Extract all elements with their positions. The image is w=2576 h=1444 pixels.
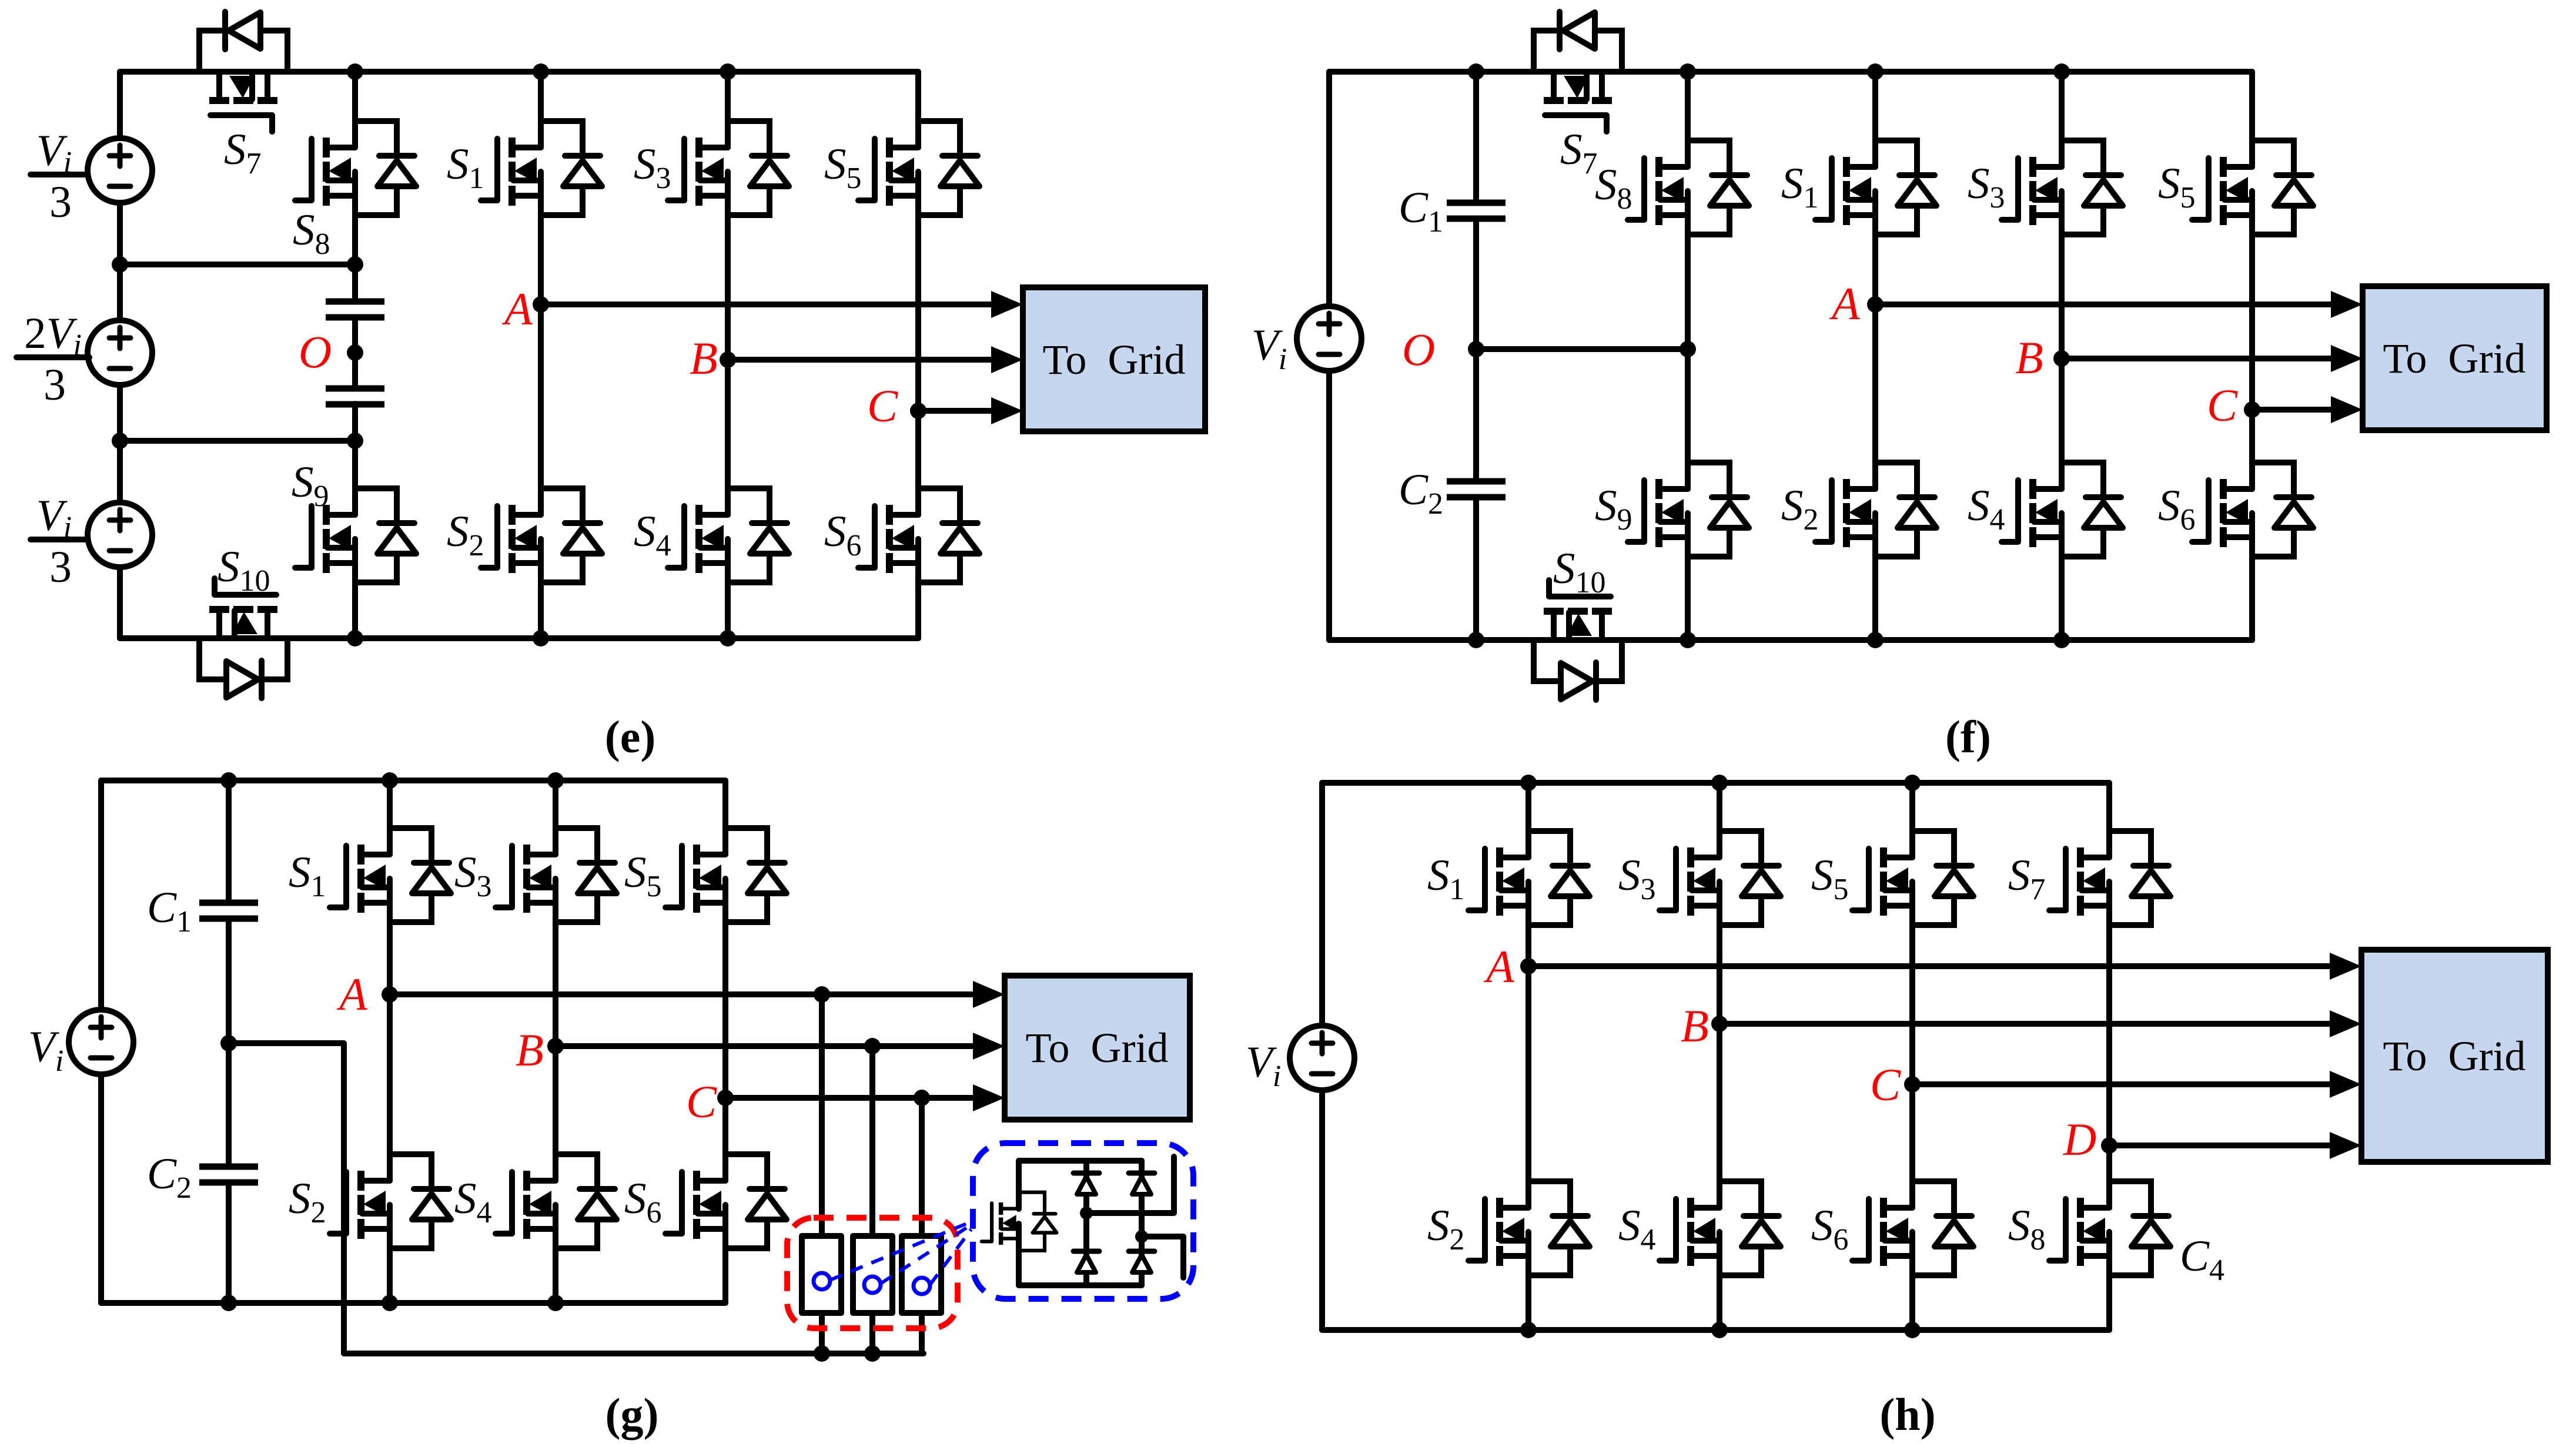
wire: (f) clamp leg [1685,72,1691,640]
svg-text:S5: S5 [2158,159,2196,215]
terminal circle A [814,1273,830,1289]
wire: (g) neutral return to switch bank [229,1043,924,1353]
junction: (g) leg A / bottom rail [382,1295,398,1311]
wire: (e) phase leg B [725,72,731,638]
svg-text:S8: S8 [2008,1201,2046,1257]
svg-text:To Grid: To Grid [2383,335,2526,382]
arrowhead: (f) phase C to grid [2331,396,2363,423]
wire: (g) top DC rail [101,778,725,783]
terminal circle B [864,1277,881,1293]
junction: (h) leg C / bottom rail [1904,1322,1921,1338]
transistor S5 of (g) (N-MOSFET with body diode) [665,828,787,922]
wire: (g) bottom DC rail [101,1300,725,1306]
switch module box A [802,1236,841,1313]
node C of (g) [717,1090,734,1106]
node B of (h) [1711,1016,1728,1032]
diode: bridge bottom-left [1073,1251,1099,1272]
wire: (f) phase A output [1875,301,2331,307]
wire: (g) phase A output [390,991,974,997]
source Vi/3 (bottom) [88,502,152,567]
svg-text:(e): (e) [605,711,656,762]
transistor S10 of (f) [1544,580,1612,640]
junction: (h) leg A / bottom rail [1520,1322,1537,1338]
blue dashed leader lines [830,1222,971,1285]
svg-text:A: A [501,283,533,334]
transistor S2 of (f) (N-MOSFET with body diode) [1815,463,1936,557]
svg-text:3: 3 [49,542,72,592]
transistor S2 of (h) (N-MOSFET with body diode) [1468,1181,1590,1275]
svg-text:S10: S10 [218,542,270,598]
wire: (h) phase D output [2109,1143,2330,1148]
junction: (e) leg B / top rail [720,63,736,80]
transistor S1 (N-MOSFET with body diode) [481,121,602,215]
svg-text:S2: S2 [289,1174,326,1229]
wire: (e) lower source tap [120,438,355,444]
source Vi of (g) [69,1010,133,1074]
node A of (f) [1867,296,1884,313]
junction: (h) leg C / top rail [1904,775,1921,791]
wire: (e) phase leg A [538,72,544,638]
wire: (h) top DC rail [1322,780,2109,786]
wire: (h) bottom DC rail [1322,1327,2109,1333]
junction: (g) switch tap C [914,1090,930,1106]
svg-text:3: 3 [44,360,66,410]
svg-text:Vi: Vi [1252,321,1287,376]
svg-text:S3: S3 [454,848,492,903]
transistor S10 (horizontal MOSFET on bottom rail) [209,578,277,638]
junction: (g) leg B / top rail [547,772,564,789]
svg-text:S7: S7 [2008,851,2046,906]
svg-text:S7: S7 [1560,125,1598,180]
junction: (e) leg A / top rail [533,63,549,80]
transistor S3 of (h) (N-MOSFET with body diode) [1660,831,1781,925]
svg-text:O: O [1402,324,1435,375]
junction: (e) clamp leg / top rail [347,63,363,80]
arrowhead: (h) phase C to grid [2330,1071,2361,1098]
wire: (h) phase A output [1528,963,2330,969]
node A [533,296,549,313]
wire: (g) capacitor leg [226,780,232,1303]
junction: (g) switch tap A [814,986,830,1003]
transistor S7 (horizontal MOSFET on top rail) [209,72,277,132]
wire: (g) phase leg B [553,780,558,1303]
svg-text:S5: S5 [624,848,662,903]
transistor S2 of (g) (N-MOSFET with body diode) [330,1154,451,1248]
svg-text:S6: S6 [2158,481,2196,537]
svg-text:S2: S2 [1427,1201,1465,1257]
wire: detail AC terminal 2 [1142,1237,1183,1278]
svg-text:S3: S3 [1618,851,1656,906]
node D of (h) [2101,1137,2117,1154]
wire: (e) phase leg C [915,72,921,638]
diode: bridge bottom-right [1129,1251,1155,1272]
diode: (f) S10 bypass diode loop [1534,643,1622,700]
wire: (g) left source rail [98,780,104,1303]
wire: (g) phase leg C [722,780,728,1303]
wire: (h) phase leg A [1525,783,1531,1330]
node B of (g) [547,1038,564,1054]
wire: (g) switch leg B [869,1046,875,1353]
transistor S3 of (f) (N-MOSFET with body diode) [2002,140,2123,234]
wire: (e) clamp leg [352,72,358,638]
svg-text:A: A [1829,278,1860,329]
svg-text:S2: S2 [1781,481,1819,537]
junction: (f) leg B / top rail [2053,63,2070,80]
svg-text:To Grid: To Grid [1026,1024,1169,1071]
svg-text:S6: S6 [624,1174,662,1229]
junction: (g) switch tap B [864,1038,881,1054]
node C of (h) [1904,1076,1921,1093]
svg-text:S1: S1 [1427,851,1465,906]
svg-text:To Grid: To Grid [1043,336,1186,383]
svg-text:S2: S2 [447,507,484,562]
wire: (f) phase B output [2062,356,2331,361]
diode: bridge top-left [1073,1173,1099,1194]
svg-text:S4: S4 [1618,1201,1656,1257]
junction: (f) clamp leg / top rail [1680,63,1696,80]
junction: (e) leg B / bottom rail [720,630,736,646]
junction: (e) left rail upper tap [112,256,128,273]
node B of (f) [2053,350,2070,367]
diode: S10 bypass diode loop [199,641,287,698]
arrowhead: (g) phase B to grid [973,1033,1005,1060]
svg-text:3: 3 [49,177,72,227]
svg-text:S1: S1 [289,848,326,903]
wire: (e) top DC rail [120,69,918,75]
transistor S4 of (f) (N-MOSFET with body diode) [2002,463,2123,557]
svg-text:Vi: Vi [36,126,72,179]
blue dashed detail box [973,1143,1193,1299]
junction: (f) leg A / bottom rail [1867,632,1884,648]
junction: (h) leg B / top rail [1711,775,1728,791]
junction: (f) clamp leg / bottom rail [1680,632,1696,648]
svg-text:S3: S3 [1968,159,2005,215]
junction: (e) clamp leg lower tap [347,433,363,449]
wire: (h) left source rail [1319,783,1325,1330]
svg-text:S4: S4 [1968,481,2005,537]
capacitor C2 [1447,481,1506,497]
svg-text:S1: S1 [1781,159,1819,215]
switch module box C [902,1236,941,1313]
arrowhead: (f) phase B to grid [2331,345,2363,372]
node B [720,351,736,368]
wire: (e) phase B output [728,357,992,363]
wire: detail bridge legs [1086,1161,1142,1285]
svg-text:C1: C1 [1399,183,1443,239]
svg-text:S8: S8 [293,206,330,261]
wire: (f) bottom DC rail [1329,637,2252,643]
svg-text:O: O [299,326,332,377]
transistor S7 of (f) [1544,72,1612,132]
terminal circle C [914,1278,930,1294]
arrowhead: (e) phase B to grid [991,346,1023,373]
junction: (g) switch leg B / return [864,1345,881,1362]
wire: detail MOSFET drain/source [1016,1161,1022,1285]
svg-text:A: A [1483,941,1514,992]
block: (e) To Grid [1023,287,1205,431]
wire: (h) phase B output [1719,1021,2330,1027]
wire: detail AC terminal 1 [1086,1157,1174,1213]
svg-text:C: C [867,380,898,431]
svg-text:S6: S6 [1811,1201,1849,1257]
diode: S7 bypass diode loop [199,12,287,69]
svg-text:S5: S5 [1811,851,1849,906]
svg-text:To Grid: To Grid [2383,1033,2526,1080]
junction: (g) cap leg / top rail [220,772,237,789]
wire: (h) phase C output [1912,1081,2330,1087]
transistor S4 of (g) (N-MOSFET with body diode) [496,1154,617,1248]
transistor S2 (N-MOSFET with body diode) [481,488,602,582]
capacitor C1 [1447,203,1506,219]
svg-text:S9: S9 [1595,481,1632,537]
svg-text:S4: S4 [454,1174,492,1229]
wire: (f) phase leg B [2059,72,2065,640]
svg-text:B: B [690,333,718,384]
svg-text:S1: S1 [447,140,484,195]
arrowhead: (h) phase D to grid [2330,1132,2361,1159]
svg-text:(g): (g) [605,1389,659,1440]
diode: (f) S7 bypass diode loop [1534,12,1622,69]
junction: (g) cap leg / bottom rail [220,1295,237,1311]
junction: (g) leg B / bottom rail [547,1295,564,1311]
junction: (g) leg A / top rail [382,772,398,789]
junction: (g) switch leg A / return [814,1345,830,1362]
source Vi of (h) [1290,1026,1354,1090]
arrowhead: (g) phase A to grid [973,981,1005,1008]
svg-text:C: C [686,1076,717,1127]
arrowhead: (g) phase C to grid [973,1084,1005,1111]
wire: (e) left source rail [117,72,123,638]
wire: (h) phase leg D [2106,783,2112,1330]
source 2Vi/3 (middle) [88,320,152,385]
svg-text:C2: C2 [1399,465,1443,521]
transistor S9 of (f) (N-MOSFET with body diode) [1628,463,1749,557]
arrowhead: (h) phase A to grid [2330,953,2361,980]
junction: (f) cap leg / top rail [1468,63,1484,80]
wire: (f) left source rail [1326,72,1332,640]
transistor S5 of (f) (N-MOSFET with body diode) [2192,140,2313,234]
junction: (f) leg A / top rail [1867,63,1884,80]
wire: (e) phase C output [918,408,992,414]
svg-text:A: A [336,969,367,1020]
wire: (g) phase leg A [387,780,393,1303]
svg-text:Vi: Vi [36,491,72,544]
wire: (e) upper source tap [120,262,355,267]
svg-text:C4: C4 [2180,1232,2224,1287]
transistor S5 (N-MOSFET with body diode) [858,121,979,215]
diode: bridge top-right [1129,1173,1155,1194]
svg-text:S7: S7 [224,125,262,180]
source Vi of (f) [1297,306,1361,371]
node O [347,344,363,361]
junction: bridge left midpoint [1080,1207,1093,1219]
svg-text:S3: S3 [634,140,671,195]
wire: (e) bottom DC rail [120,635,918,641]
svg-text:S10: S10 [1553,544,1606,599]
svg-text:S9: S9 [292,458,329,513]
transistor S4 (N-MOSFET with body diode) [668,488,789,582]
svg-text:S5: S5 [824,140,862,195]
svg-text:B: B [2015,332,2043,383]
wire: (f) phase C output [2252,407,2331,413]
svg-text:Vi: Vi [28,1023,63,1078]
transistor S3 of (g) (N-MOSFET with body diode) [496,828,617,922]
node C [910,403,926,419]
transistor S6 of (h) (N-MOSFET with body diode) [1852,1181,1973,1275]
capacitor C1 of (g) [199,903,258,919]
arrowhead: (h) phase B to grid [2330,1010,2361,1037]
svg-text:S4: S4 [634,507,671,562]
svg-text:S6: S6 [824,507,862,562]
junction: (f) neutral link / clamp leg [1680,341,1696,357]
transistor S1 of (g) (N-MOSFET with body diode) [330,828,451,922]
svg-text:2Vi: 2Vi [24,309,82,362]
transistor S8 of (f) (N-MOSFET with body diode) [1628,140,1749,234]
wire: (f) capacitor leg [1473,72,1479,640]
wire: (g) switch leg C [919,1098,925,1353]
wire: (f) neutral link O [1476,346,1688,352]
wire: (g) switch leg A [819,994,825,1353]
transistor S1 of (h) (N-MOSFET with body diode) [1468,831,1590,925]
svg-text:Vi: Vi [1246,1038,1281,1093]
svg-text:B: B [1681,1000,1709,1051]
transistor S6 (N-MOSFET with body diode) [858,488,979,582]
svg-text:D: D [2063,1114,2096,1165]
switch module box B [853,1236,892,1313]
node A of (h) [1520,958,1537,974]
red dashed highlight box [787,1218,958,1328]
wire: (h) phase leg C [1909,783,1915,1330]
svg-text:(f): (f) [1945,711,1991,762]
arrowhead: (e) phase C to grid [991,397,1023,424]
transistor S6 of (f) (N-MOSFET with body diode) [2192,463,2313,557]
transistor S9 (N-MOSFET with body diode) [295,488,416,582]
wire: detail bridge rails [1019,1161,1142,1285]
junction: (e) clamp leg upper tap [347,256,363,273]
capacitor (e) upper clamp cap [326,301,384,317]
junction: (h) leg A / top rail [1520,775,1537,791]
junction: (e) left rail lower tap [112,433,128,449]
junction: (f) leg B / bottom rail [2053,632,2070,648]
junction: bridge right midpoint [1135,1230,1148,1243]
transistor S4 of (h) (N-MOSFET with body diode) [1660,1181,1781,1275]
wire: (g) phase B output [556,1043,974,1049]
wire: (f) phase leg A [1872,72,1878,640]
transistor S1 of (f) (N-MOSFET with body diode) [1815,140,1936,234]
wire: (g) phase C output [725,1095,974,1101]
capacitor (e) lower clamp cap [326,388,384,404]
junction: (f) cap leg / bottom rail [1468,632,1484,648]
transistor S3 (N-MOSFET with body diode) [668,121,789,215]
block: (f) To Grid [2363,286,2547,430]
source Vi/3 (top) [88,138,152,203]
svg-text:(h): (h) [1879,1389,1935,1440]
transistor: detail bidirectional switch MOSFET [982,1192,1057,1251]
transistor S5 of (h) (N-MOSFET with body diode) [1852,831,1973,925]
node O of (f) [1468,341,1484,357]
node A of (g) [382,986,398,1003]
node C of (f) [2244,401,2260,418]
transistor S8 of (h) (N-MOSFET with body diode) [2049,1181,2170,1275]
wire: (h) phase leg B [1717,783,1722,1330]
block: (h) To Grid [2361,950,2548,1162]
wire: (e) phase A output [541,301,992,307]
arrowhead: (f) phase A to grid [2331,291,2363,318]
transistor S6 of (g) (N-MOSFET with body diode) [665,1154,787,1248]
block: (g) To Grid [1005,976,1190,1120]
svg-text:C1: C1 [147,883,192,939]
svg-text:S8: S8 [1595,160,1632,216]
arrowhead: (e) phase A to grid [991,291,1023,318]
junction: (h) leg B / bottom rail [1711,1322,1728,1338]
capacitor C2 of (g) [199,1167,258,1182]
svg-text:C: C [2207,380,2238,431]
junction: (g) cap midpoint [220,1035,237,1051]
wire: (f) phase leg C [2249,72,2255,640]
svg-text:C2: C2 [147,1150,192,1205]
junction: (e) clamp leg / bottom rail [347,630,363,646]
wire: (f) top DC rail [1329,69,2252,75]
svg-text:C: C [1870,1059,1901,1110]
transistor S8 (N-MOSFET with body diode) [295,121,416,215]
junction: (e) leg A / bottom rail [533,630,549,646]
svg-text:B: B [516,1024,544,1076]
transistor S7 of (h) (N-MOSFET with body diode) [2049,831,2170,925]
